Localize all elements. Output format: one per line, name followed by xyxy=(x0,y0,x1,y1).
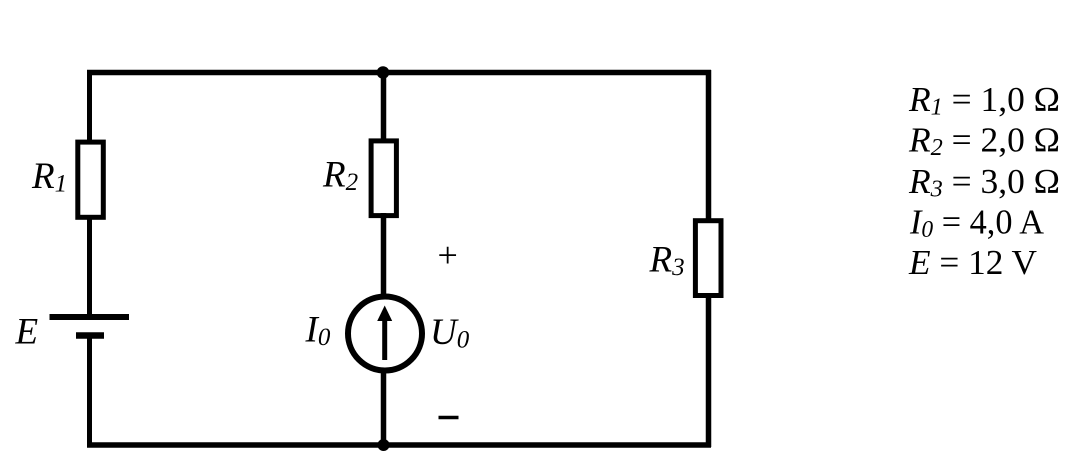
svg-text:+: + xyxy=(438,235,458,275)
svg-text:R3: R3 xyxy=(649,240,685,282)
wire right upper xyxy=(706,70,712,221)
battery E long plate xyxy=(50,314,130,320)
svg-text:R1: R1 xyxy=(31,156,67,198)
svg-text:R1 = 1,0 Ω: R1 = 1,0 Ω xyxy=(908,80,1060,121)
svg-text:E = 12 V: E = 12 V xyxy=(908,243,1037,282)
wire middle lower xyxy=(381,369,387,447)
node bottom junction xyxy=(378,439,390,451)
wire middle between R2 and source xyxy=(381,213,387,298)
resistor R1 xyxy=(78,142,104,217)
svg-text:R2: R2 xyxy=(322,155,358,197)
current source I0 circle xyxy=(348,297,422,371)
resistor R2 xyxy=(371,141,396,216)
wire left lower xyxy=(87,336,92,448)
svg-text:E: E xyxy=(15,311,39,352)
svg-text:U0: U0 xyxy=(430,312,470,354)
wire top xyxy=(87,70,711,76)
node top junction xyxy=(377,66,390,79)
wire left upper xyxy=(87,70,92,142)
wire right lower xyxy=(706,295,712,447)
current source I0 arrow xyxy=(377,306,392,361)
svg-text:I0 = 4,0 A: I0 = 4,0 A xyxy=(909,203,1045,244)
label minus polarity xyxy=(439,416,459,420)
wire left middle xyxy=(87,217,92,317)
wire middle upper xyxy=(381,73,387,143)
resistor R3 xyxy=(695,221,721,296)
wire bottom xyxy=(87,442,711,448)
battery E short plate xyxy=(76,332,104,339)
svg-text:R2 = 2,0 Ω: R2 = 2,0 Ω xyxy=(908,121,1060,162)
svg-text:I0: I0 xyxy=(305,310,331,352)
svg-text:R3 = 3,0 Ω: R3 = 3,0 Ω xyxy=(908,162,1060,203)
